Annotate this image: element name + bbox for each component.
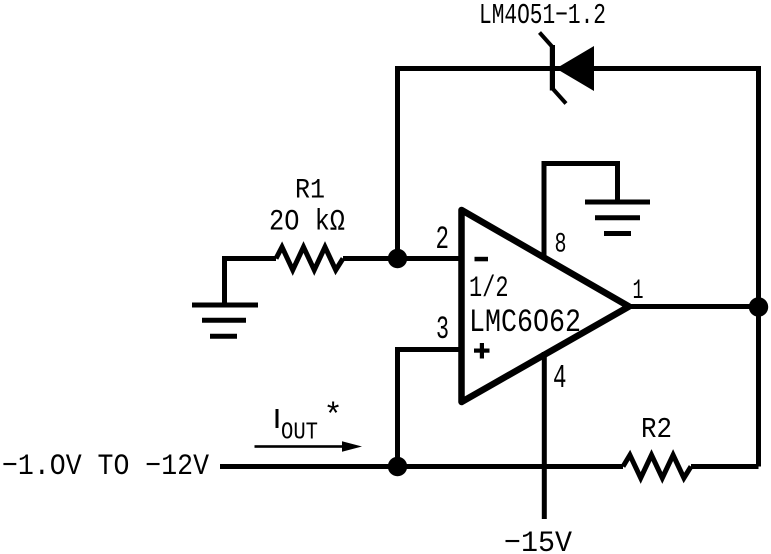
svg-text:3: 3 [436, 311, 449, 348]
svg-text:2O kΩ: 2O kΩ [269, 206, 345, 240]
svg-text:−15V: −15V [504, 527, 572, 554]
svg-text:*: * [324, 398, 343, 435]
svg-text:LMC6O62: LMC6O62 [469, 304, 581, 341]
svg-text:R1: R1 [295, 176, 325, 207]
svg-text:OUT: OUT [281, 420, 318, 447]
svg-text:2: 2 [436, 221, 450, 258]
svg-text:1/2: 1/2 [469, 272, 509, 306]
svg-text:−1.OV TO −12V: −1.OV TO −12V [2, 450, 209, 484]
svg-text:4: 4 [553, 360, 567, 397]
svg-text:LM4O51−1.2: LM4O51−1.2 [479, 0, 606, 32]
svg-text:R2: R2 [641, 413, 672, 446]
svg-text:8: 8 [555, 230, 567, 261]
svg-text:1: 1 [633, 276, 644, 307]
